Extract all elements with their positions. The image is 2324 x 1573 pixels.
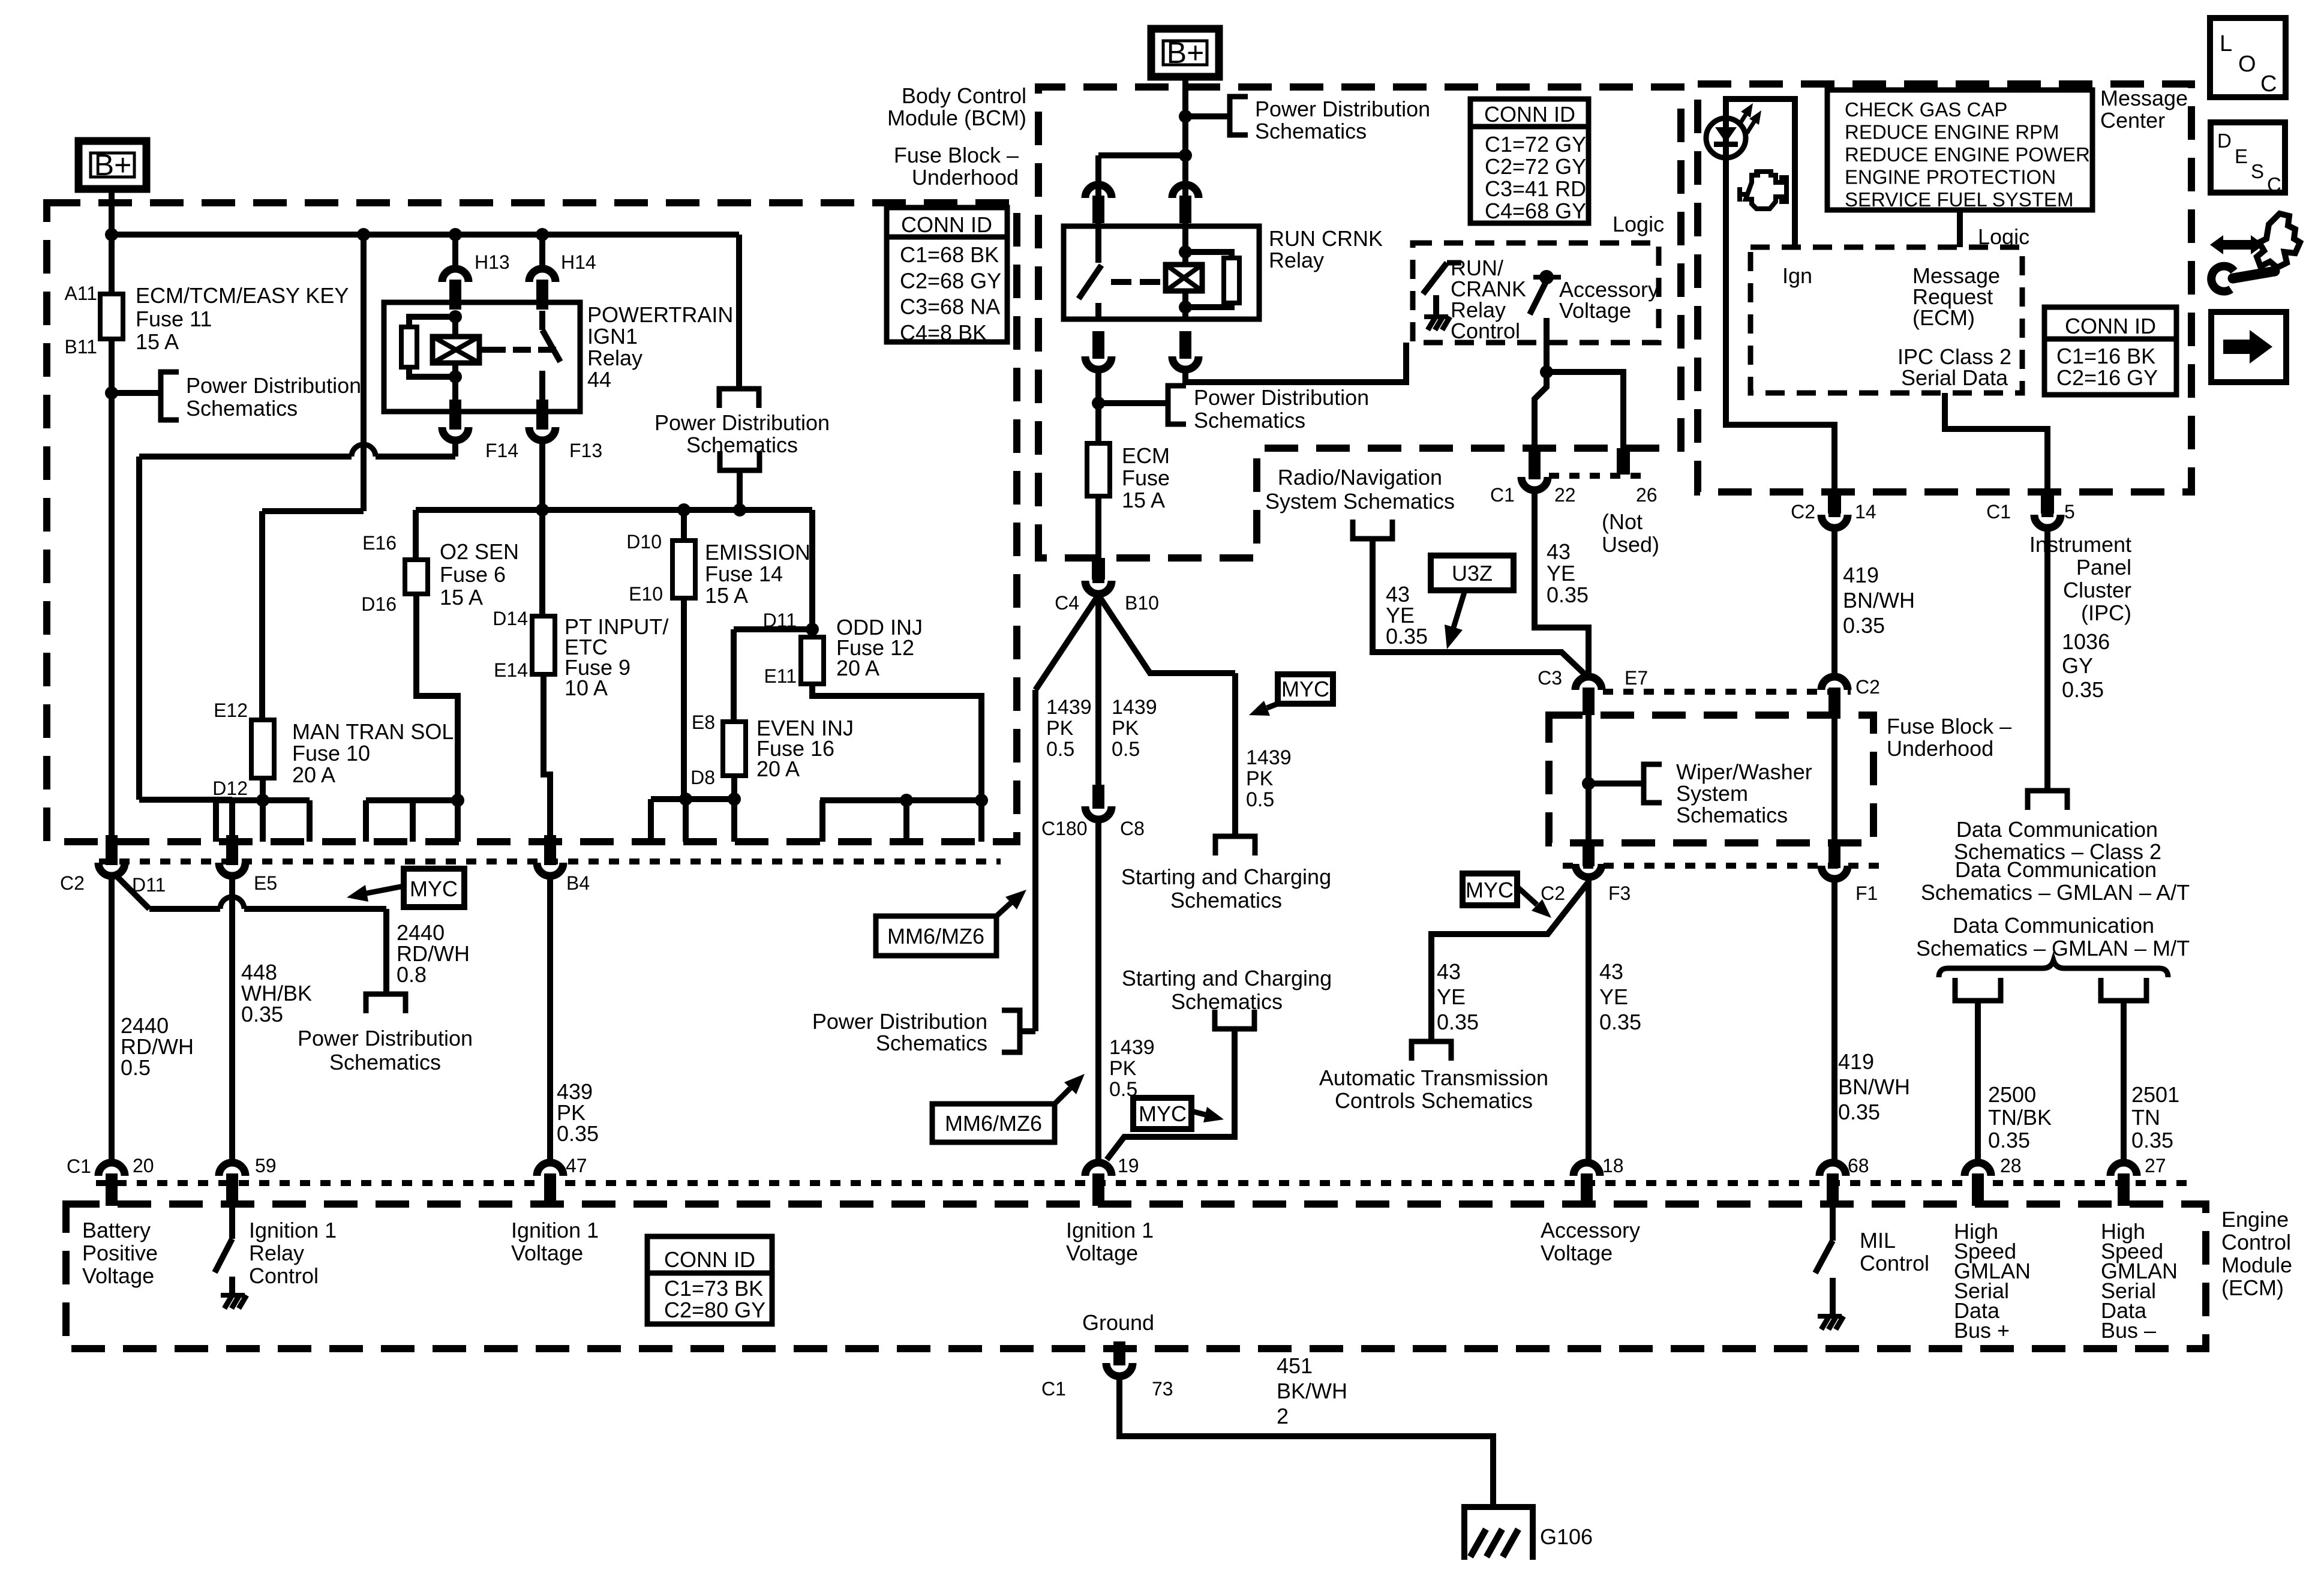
svg-text:E: E: [2235, 145, 2248, 167]
svg-text:F14: F14: [485, 440, 518, 461]
svg-text:D11: D11: [763, 610, 797, 631]
svg-text:Data Communication: Data Communication: [1955, 857, 2157, 882]
svg-text:MAN TRAN SOL: MAN TRAN SOL: [292, 719, 454, 744]
svg-text:B10: B10: [1125, 592, 1159, 614]
svg-text:20 A: 20 A: [292, 763, 335, 787]
svg-text:Used): Used): [1602, 532, 1659, 557]
svg-text:C4=68 GY: C4=68 GY: [1485, 199, 1586, 223]
svg-text:D: D: [2217, 130, 2232, 152]
svg-text:Data Communication: Data Communication: [1953, 913, 2154, 938]
svg-text:C2=68 GY: C2=68 GY: [900, 268, 1001, 293]
svg-text:14: 14: [1855, 501, 1876, 523]
svg-text:0.8: 0.8: [397, 962, 427, 987]
svg-text:PK: PK: [1112, 717, 1139, 740]
svg-text:Cluster: Cluster: [2063, 578, 2131, 602]
svg-text:2: 2: [1277, 1404, 1289, 1428]
svg-text:Fuse 11: Fuse 11: [136, 307, 212, 331]
svg-text:Schematics: Schematics: [1194, 408, 1305, 433]
svg-text:Logic: Logic: [1613, 212, 1664, 236]
svg-text:E16: E16: [362, 532, 397, 554]
svg-text:C2: C2: [1855, 676, 1880, 698]
svg-text:System: System: [1676, 781, 1748, 806]
svg-text:0.35: 0.35: [557, 1121, 599, 1146]
svg-text:REDUCE ENGINE POWER: REDUCE ENGINE POWER: [1845, 143, 2090, 166]
svg-text:B4: B4: [566, 872, 590, 894]
svg-text:Ignition 1: Ignition 1: [1066, 1218, 1154, 1242]
svg-text:15 A: 15 A: [136, 329, 179, 354]
svg-text:BN/WH: BN/WH: [1843, 588, 1915, 613]
svg-text:E12: E12: [214, 700, 248, 721]
svg-text:C8: C8: [1120, 818, 1145, 839]
svg-text:2500: 2500: [1988, 1082, 2036, 1107]
svg-text:Ign: Ign: [1782, 263, 1812, 288]
svg-text:43: 43: [1437, 959, 1461, 984]
svg-text:Power Distribution: Power Distribution: [1194, 385, 1369, 410]
svg-text:Schematics: Schematics: [1255, 119, 1367, 143]
svg-text:0.35: 0.35: [2131, 1128, 2173, 1152]
svg-text:(ECM): (ECM): [2221, 1275, 2284, 1300]
svg-text:CONN ID: CONN ID: [664, 1247, 755, 1272]
svg-text:C1=73 BK: C1=73 BK: [664, 1276, 763, 1301]
svg-text:43: 43: [1547, 539, 1571, 564]
svg-text:Schematics: Schematics: [686, 433, 798, 457]
svg-text:47: 47: [566, 1155, 587, 1176]
svg-text:C1: C1: [1041, 1378, 1066, 1400]
svg-text:Power Distribution: Power Distribution: [298, 1026, 473, 1050]
svg-text:C1: C1: [1986, 501, 2011, 523]
svg-text:0.35: 0.35: [1988, 1128, 2030, 1152]
svg-text:C: C: [2260, 71, 2277, 97]
svg-text:Fuse 14: Fuse 14: [705, 562, 783, 586]
svg-text:F3: F3: [1608, 882, 1631, 904]
svg-text:15 A: 15 A: [440, 585, 483, 610]
svg-text:C3=68 NA: C3=68 NA: [900, 295, 1000, 319]
svg-text:Schematics: Schematics: [186, 396, 298, 421]
svg-text:Voltage: Voltage: [82, 1263, 154, 1288]
svg-text:19: 19: [1118, 1155, 1139, 1176]
svg-text:D12: D12: [212, 778, 248, 799]
svg-text:C1=72 GY: C1=72 GY: [1485, 132, 1586, 157]
svg-text:Bus +: Bus +: [1954, 1318, 2010, 1343]
svg-text:SERVICE FUEL SYSTEM: SERVICE FUEL SYSTEM: [1845, 188, 2073, 211]
svg-text:C2: C2: [60, 872, 85, 894]
svg-text:0.5: 0.5: [1112, 738, 1140, 761]
svg-text:Fuse 10: Fuse 10: [292, 741, 370, 766]
svg-text:S: S: [2251, 160, 2264, 182]
svg-text:1439: 1439: [1246, 746, 1292, 769]
svg-text:15 A: 15 A: [1122, 488, 1165, 512]
svg-text:0.35: 0.35: [1838, 1100, 1880, 1124]
svg-text:E7: E7: [1625, 667, 1648, 689]
svg-text:Positive: Positive: [82, 1241, 158, 1265]
svg-text:0.35: 0.35: [1547, 583, 1589, 607]
svg-text:419: 419: [1843, 563, 1879, 587]
svg-text:E14: E14: [494, 659, 528, 681]
svg-text:CHECK GAS CAP: CHECK GAS CAP: [1845, 98, 2007, 121]
svg-text:Schematics: Schematics: [1676, 803, 1788, 827]
svg-text:Controls Schematics: Controls Schematics: [1335, 1088, 1533, 1113]
svg-text:ENGINE PROTECTION: ENGINE PROTECTION: [1845, 166, 2056, 188]
svg-text:CONN ID: CONN ID: [2065, 314, 2156, 338]
svg-text:Control: Control: [249, 1263, 319, 1288]
svg-text:B11: B11: [64, 336, 97, 358]
svg-text:O2 SEN: O2 SEN: [440, 539, 519, 564]
svg-text:0.5: 0.5: [121, 1055, 151, 1080]
svg-text:C: C: [2267, 173, 2281, 196]
svg-text:ECM/TCM/EASY KEY: ECM/TCM/EASY KEY: [136, 283, 349, 308]
svg-text:Power Distribution: Power Distribution: [812, 1009, 987, 1034]
svg-text:Relay: Relay: [587, 346, 642, 370]
svg-text:F1: F1: [1855, 882, 1878, 904]
svg-text:MYC: MYC: [410, 876, 458, 901]
svg-text:MYC: MYC: [1139, 1101, 1187, 1126]
svg-text:Data Communication: Data Communication: [1956, 817, 2158, 842]
svg-text:C2: C2: [1791, 501, 1815, 523]
svg-text:H13: H13: [475, 251, 510, 273]
svg-text:1439: 1439: [1046, 696, 1092, 719]
svg-text:IGN1: IGN1: [587, 324, 638, 349]
svg-text:0.35: 0.35: [241, 1002, 283, 1026]
svg-text:C1: C1: [67, 1155, 91, 1177]
svg-text:F13: F13: [569, 440, 602, 461]
svg-text:27: 27: [2145, 1155, 2166, 1176]
svg-text:Control: Control: [1451, 319, 1520, 343]
svg-text:PK: PK: [1109, 1057, 1137, 1080]
svg-text:Serial Data: Serial Data: [1901, 365, 2008, 390]
svg-text:Ignition 1: Ignition 1: [249, 1218, 337, 1242]
svg-text:G106: G106: [1540, 1524, 1593, 1549]
svg-text:Logic: Logic: [1978, 224, 2029, 249]
svg-text:Automatic Transmission: Automatic Transmission: [1319, 1065, 1548, 1090]
svg-text:10 A: 10 A: [565, 676, 608, 700]
svg-text:Message: Message: [2100, 86, 2188, 110]
svg-text:43: 43: [1599, 959, 1623, 984]
svg-text:A11: A11: [64, 283, 97, 304]
svg-text:D10: D10: [626, 531, 662, 553]
svg-text:44: 44: [587, 367, 611, 392]
svg-text:26: 26: [1636, 484, 1658, 506]
svg-text:BN/WH: BN/WH: [1838, 1074, 1910, 1099]
svg-text:2501: 2501: [2131, 1082, 2179, 1107]
svg-text:C1: C1: [1490, 484, 1515, 506]
svg-text:Voltage: Voltage: [1541, 1241, 1613, 1265]
svg-text:E10: E10: [629, 583, 663, 605]
svg-text:0.35: 0.35: [1437, 1010, 1479, 1034]
svg-text:Center: Center: [2100, 108, 2165, 133]
svg-text:Voltage: Voltage: [1559, 298, 1631, 323]
svg-text:(Not: (Not: [1602, 509, 1643, 534]
svg-text:C3=41 RD: C3=41 RD: [1485, 176, 1586, 201]
svg-text:Underhood: Underhood: [912, 165, 1019, 190]
svg-text:Power Distribution: Power Distribution: [1255, 97, 1430, 121]
svg-text:C2: C2: [1541, 882, 1565, 904]
svg-text:Schematics: Schematics: [1170, 888, 1282, 912]
svg-text:B+: B+: [1167, 36, 1205, 70]
svg-text:59: 59: [255, 1155, 277, 1176]
svg-text:0.5: 0.5: [1246, 788, 1274, 811]
svg-text:Voltage: Voltage: [1066, 1241, 1138, 1265]
svg-text:Schematics: Schematics: [329, 1050, 441, 1074]
svg-text:REDUCE ENGINE RPM: REDUCE ENGINE RPM: [1845, 121, 2059, 143]
svg-text:Relay: Relay: [249, 1241, 304, 1265]
svg-text:Starting and Charging: Starting and Charging: [1122, 966, 1332, 990]
svg-text:Voltage: Voltage: [511, 1241, 583, 1265]
svg-text:U3Z: U3Z: [1452, 561, 1493, 586]
svg-text:Module: Module: [2221, 1253, 2292, 1277]
svg-text:Panel: Panel: [2076, 555, 2131, 580]
svg-text:Control: Control: [2221, 1230, 2291, 1254]
svg-text:Wiper/Washer: Wiper/Washer: [1676, 760, 1812, 784]
svg-text:20 A: 20 A: [756, 757, 800, 781]
svg-text:E11: E11: [764, 665, 797, 687]
svg-text:68: 68: [1848, 1155, 1869, 1176]
svg-text:22: 22: [1554, 484, 1576, 506]
svg-text:CONN ID: CONN ID: [1484, 102, 1575, 127]
svg-text:419: 419: [1838, 1049, 1874, 1074]
svg-text:PK: PK: [1246, 767, 1274, 790]
svg-text:System Schematics: System Schematics: [1265, 489, 1455, 514]
svg-text:Schematics – GMLAN – A/T: Schematics – GMLAN – A/T: [1921, 880, 2190, 905]
svg-text:451: 451: [1277, 1353, 1313, 1378]
svg-text:73: 73: [1152, 1378, 1173, 1400]
svg-text:Module (BCM): Module (BCM): [887, 106, 1026, 130]
svg-text:0.5: 0.5: [1046, 738, 1074, 761]
svg-text:Power Distribution: Power Distribution: [186, 373, 361, 398]
svg-text:0.35: 0.35: [1843, 613, 1885, 638]
svg-text:Relay: Relay: [1269, 248, 1324, 272]
svg-text:0.35: 0.35: [1599, 1010, 1641, 1034]
svg-text:Ground: Ground: [1082, 1310, 1154, 1335]
svg-text:C4: C4: [1055, 592, 1079, 614]
svg-text:1439: 1439: [1109, 1036, 1155, 1059]
svg-text:C2=16 GY: C2=16 GY: [2056, 365, 2158, 390]
svg-text:Schematics: Schematics: [876, 1031, 987, 1055]
svg-text:MM6/MZ6: MM6/MZ6: [945, 1111, 1042, 1136]
svg-text:MYC: MYC: [1466, 878, 1514, 902]
svg-text:Power Distribution: Power Distribution: [654, 410, 830, 435]
svg-text:D16: D16: [361, 593, 397, 615]
svg-text:B+: B+: [94, 148, 132, 182]
svg-text:CONN ID: CONN ID: [901, 212, 992, 237]
svg-text:0.35: 0.35: [1386, 624, 1428, 649]
svg-text:MIL: MIL: [1860, 1228, 1896, 1253]
svg-text:1036: 1036: [2062, 629, 2110, 654]
svg-text:(IPC): (IPC): [2081, 601, 2131, 625]
svg-text:0.35: 0.35: [2062, 677, 2104, 702]
svg-text:MYC: MYC: [1281, 677, 1329, 701]
svg-text:C3: C3: [1538, 667, 1562, 689]
svg-text:C4=8 BK: C4=8 BK: [900, 320, 987, 345]
svg-text:O: O: [2238, 52, 2256, 77]
svg-text:PK: PK: [1046, 717, 1074, 740]
svg-text:EMISSION: EMISSION: [705, 540, 810, 565]
svg-text:C2=72 GY: C2=72 GY: [1485, 154, 1586, 179]
svg-text:Body Control: Body Control: [902, 83, 1026, 108]
svg-text:15 A: 15 A: [705, 583, 748, 608]
svg-text:Fuse 6: Fuse 6: [440, 562, 506, 587]
svg-text:YE: YE: [1437, 984, 1466, 1009]
svg-text:MM6/MZ6: MM6/MZ6: [887, 924, 984, 948]
svg-text:BK/WH: BK/WH: [1277, 1379, 1347, 1403]
svg-text:C2=80 GY: C2=80 GY: [664, 1298, 765, 1322]
svg-text:1439: 1439: [1112, 696, 1157, 719]
svg-text:Fuse Block –: Fuse Block –: [894, 143, 1019, 167]
svg-text:Engine: Engine: [2221, 1207, 2289, 1232]
svg-text:C180: C180: [1041, 818, 1088, 839]
svg-text:Fuse Block –: Fuse Block –: [1887, 714, 2011, 739]
svg-text:TN/BK: TN/BK: [1988, 1105, 2052, 1130]
svg-text:Underhood: Underhood: [1887, 736, 1993, 761]
svg-text:Ignition 1: Ignition 1: [511, 1218, 599, 1242]
svg-text:Starting and Charging: Starting and Charging: [1121, 864, 1331, 889]
svg-text:(ECM): (ECM): [1912, 305, 1975, 330]
svg-text:18: 18: [1602, 1155, 1624, 1176]
svg-text:H14: H14: [561, 251, 596, 273]
svg-text:POWERTRAIN: POWERTRAIN: [587, 302, 733, 327]
svg-text:ECM: ECM: [1122, 443, 1170, 468]
svg-text:Schematics: Schematics: [1171, 989, 1283, 1014]
svg-text:D8: D8: [690, 767, 715, 788]
svg-text:Battery: Battery: [82, 1218, 151, 1242]
svg-text:GY: GY: [2062, 653, 2093, 678]
svg-text:Control: Control: [1860, 1251, 1929, 1275]
svg-text:RUN CRNK: RUN CRNK: [1269, 226, 1383, 251]
svg-text:TN: TN: [2131, 1105, 2160, 1130]
svg-text:E8: E8: [692, 712, 715, 733]
svg-text:20: 20: [133, 1155, 154, 1176]
svg-text:Radio/Navigation: Radio/Navigation: [1278, 465, 1442, 490]
svg-text:C1=16 BK: C1=16 BK: [2056, 344, 2155, 368]
svg-text:YE: YE: [1599, 984, 1628, 1009]
svg-text:E5: E5: [254, 872, 277, 894]
svg-text:5: 5: [2064, 501, 2075, 523]
svg-text:C1=68 BK: C1=68 BK: [900, 242, 999, 267]
svg-text:Accessory: Accessory: [1541, 1218, 1640, 1242]
svg-text:L: L: [2220, 31, 2232, 56]
svg-text:Bus –: Bus –: [2101, 1318, 2156, 1343]
svg-text:YE: YE: [1547, 561, 1575, 586]
svg-text:20 A: 20 A: [836, 656, 879, 680]
svg-text:D14: D14: [493, 608, 528, 629]
svg-text:28: 28: [2000, 1155, 2022, 1176]
svg-text:Fuse: Fuse: [1122, 466, 1170, 490]
